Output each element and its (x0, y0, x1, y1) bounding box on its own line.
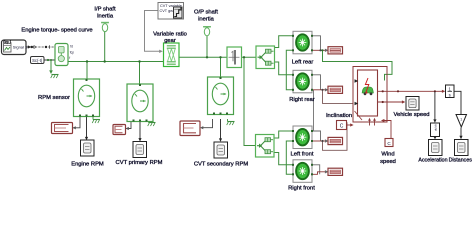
svg-text:Left rear: Left rear (292, 60, 314, 66)
svg-text:Distances: Distances (449, 158, 473, 164)
svg-text:gear: gear (164, 38, 176, 44)
svg-text:du/dt: du/dt (434, 124, 438, 131)
svg-text:CVT secondary RPM: CVT secondary RPM (194, 162, 249, 168)
svg-text:Inertia: Inertia (97, 14, 114, 20)
svg-text:speed: speed (380, 159, 396, 165)
svg-text:Sc(-t): Sc(-t) (32, 58, 43, 63)
svg-text:CVT primary RPM: CVT primary RPM (116, 160, 163, 166)
svg-text:s: s (449, 93, 451, 98)
svg-text:Wind: Wind (381, 152, 394, 158)
svg-text:Left front: Left front (291, 152, 314, 158)
svg-text:O/P shaft: O/P shaft (194, 10, 218, 16)
svg-text:Grp 1: Grp 1 (3, 40, 12, 44)
svg-text:Inclination: Inclination (326, 113, 352, 119)
svg-text:Vehicle speed: Vehicle speed (393, 112, 429, 118)
svg-text:Right front: Right front (288, 186, 315, 192)
svg-text:inertia: inertia (198, 17, 215, 23)
svg-text:fcp: fcp (70, 51, 74, 55)
svg-text:C: C (340, 124, 344, 130)
svg-text:Right rear: Right rear (289, 97, 315, 103)
svg-text:Engine torque- speed curve: Engine torque- speed curve (21, 28, 92, 34)
svg-text:Acceleration: Acceleration (418, 158, 447, 164)
svg-text:fd: fd (70, 45, 73, 49)
svg-text:RPM sensor: RPM sensor (38, 95, 70, 101)
svg-text:I/P shaft: I/P shaft (94, 7, 116, 13)
svg-text:Signal 1: Signal 1 (13, 45, 28, 50)
svg-text:f: f (69, 56, 70, 60)
svg-text:1: 1 (460, 118, 462, 122)
svg-text:Variable ratio: Variable ratio (153, 32, 187, 38)
svg-text:Engine RPM: Engine RPM (71, 162, 104, 168)
